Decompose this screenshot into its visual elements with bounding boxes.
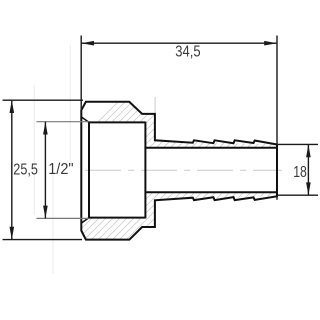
dim 34,5 arrow left (81, 41, 94, 46)
dim 1/2 line (44, 122, 46, 219)
dim 1/2 extension top grey (37, 121, 89, 123)
dim 25,5 arrow down (10, 227, 15, 240)
dim 18 extension top (277, 143, 318, 145)
barb bore line top (145, 147, 277, 149)
dim 34,5 arrow right (264, 41, 277, 46)
svg-text:25,5: 25,5 (13, 162, 38, 179)
dim 34,5 extension right (276, 36, 278, 145)
dim 1/2 arrow down (43, 206, 48, 219)
hatch bottom wall (60, 180, 320, 250)
dim 18 extension bottom (277, 194, 318, 196)
bore entry chamfer bottom (82, 218, 90, 223)
artifact faint line x155 (154, 97, 156, 114)
artifact faint line x34 (33, 85, 35, 215)
svg-text:1/2": 1/2" (48, 161, 73, 178)
thread bore box (89, 121, 145, 123)
dim 25,5 extension top (3, 99, 84, 101)
dim 25,5 line (11, 100, 13, 239)
dim 1/2 extension bottom grey (37, 217, 89, 219)
dim 1/2 arrow up (43, 122, 48, 135)
hatch top wall (60, 90, 320, 160)
centerline axis (85, 169, 282, 171)
dim 34,5 extension left (80, 36, 82, 111)
dim 34,5 line (81, 42, 277, 44)
artifact faint line x70 (69, 45, 71, 160)
dim 18 arrow down (306, 182, 311, 195)
svg-text:18: 18 (293, 164, 307, 181)
dim 18 line (307, 144, 309, 195)
dim 25,5 arrow up (10, 100, 15, 113)
dim 18 arrow up (306, 144, 311, 157)
dim 25,5 extension bottom (3, 239, 83, 241)
artifact faint line x53 (52, 175, 54, 274)
bore entry chamfer top (82, 117, 90, 122)
fitting outer profile (81, 102, 277, 240)
svg-text:34,5: 34,5 (175, 44, 200, 61)
barb bore line bottom (145, 191, 277, 193)
